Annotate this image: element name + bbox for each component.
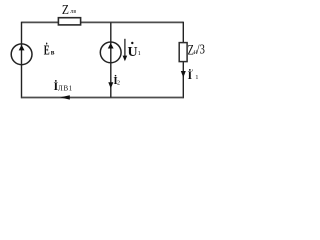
- current arrow I_lv1: [60, 95, 70, 99]
- wire top: [22, 21, 184, 23]
- label Z_l: [62, 2, 77, 17]
- resistor Z_l: [58, 18, 80, 25]
- source E_v: [11, 44, 32, 65]
- source U_1 branch circle: [100, 42, 121, 63]
- current arrow I'_1: [181, 71, 186, 78]
- wire bottom: [22, 97, 184, 99]
- svg-text:Z: Z: [62, 2, 69, 17]
- label I_lv1: [54, 79, 73, 93]
- svg-text:2: 2: [117, 80, 120, 86]
- label E_v: [44, 42, 55, 59]
- label U_1: [128, 42, 141, 60]
- svg-text:U: U: [128, 45, 138, 60]
- voltage arrow U_1: [123, 39, 128, 61]
- svg-text:Ė: Ė: [44, 42, 50, 59]
- svg-text:ЛВ1: ЛВ1: [58, 85, 73, 93]
- current arrow I_2: [108, 82, 113, 88]
- wire right: [182, 22, 184, 99]
- label Z_n/3: [188, 41, 205, 58]
- label I_2: [113, 75, 120, 87]
- svg-text:′: ′: [192, 68, 194, 76]
- svg-text:1: 1: [195, 74, 198, 81]
- label I'_1: [188, 68, 199, 82]
- impedance Z_n/3: [179, 43, 187, 62]
- svg-text:в: в: [51, 49, 55, 57]
- svg-text:лв: лв: [70, 9, 76, 15]
- svg-text:1: 1: [138, 50, 141, 57]
- svg-text:/3: /3: [197, 41, 205, 57]
- wire middle branch: [110, 22, 112, 97]
- wire left: [21, 22, 23, 99]
